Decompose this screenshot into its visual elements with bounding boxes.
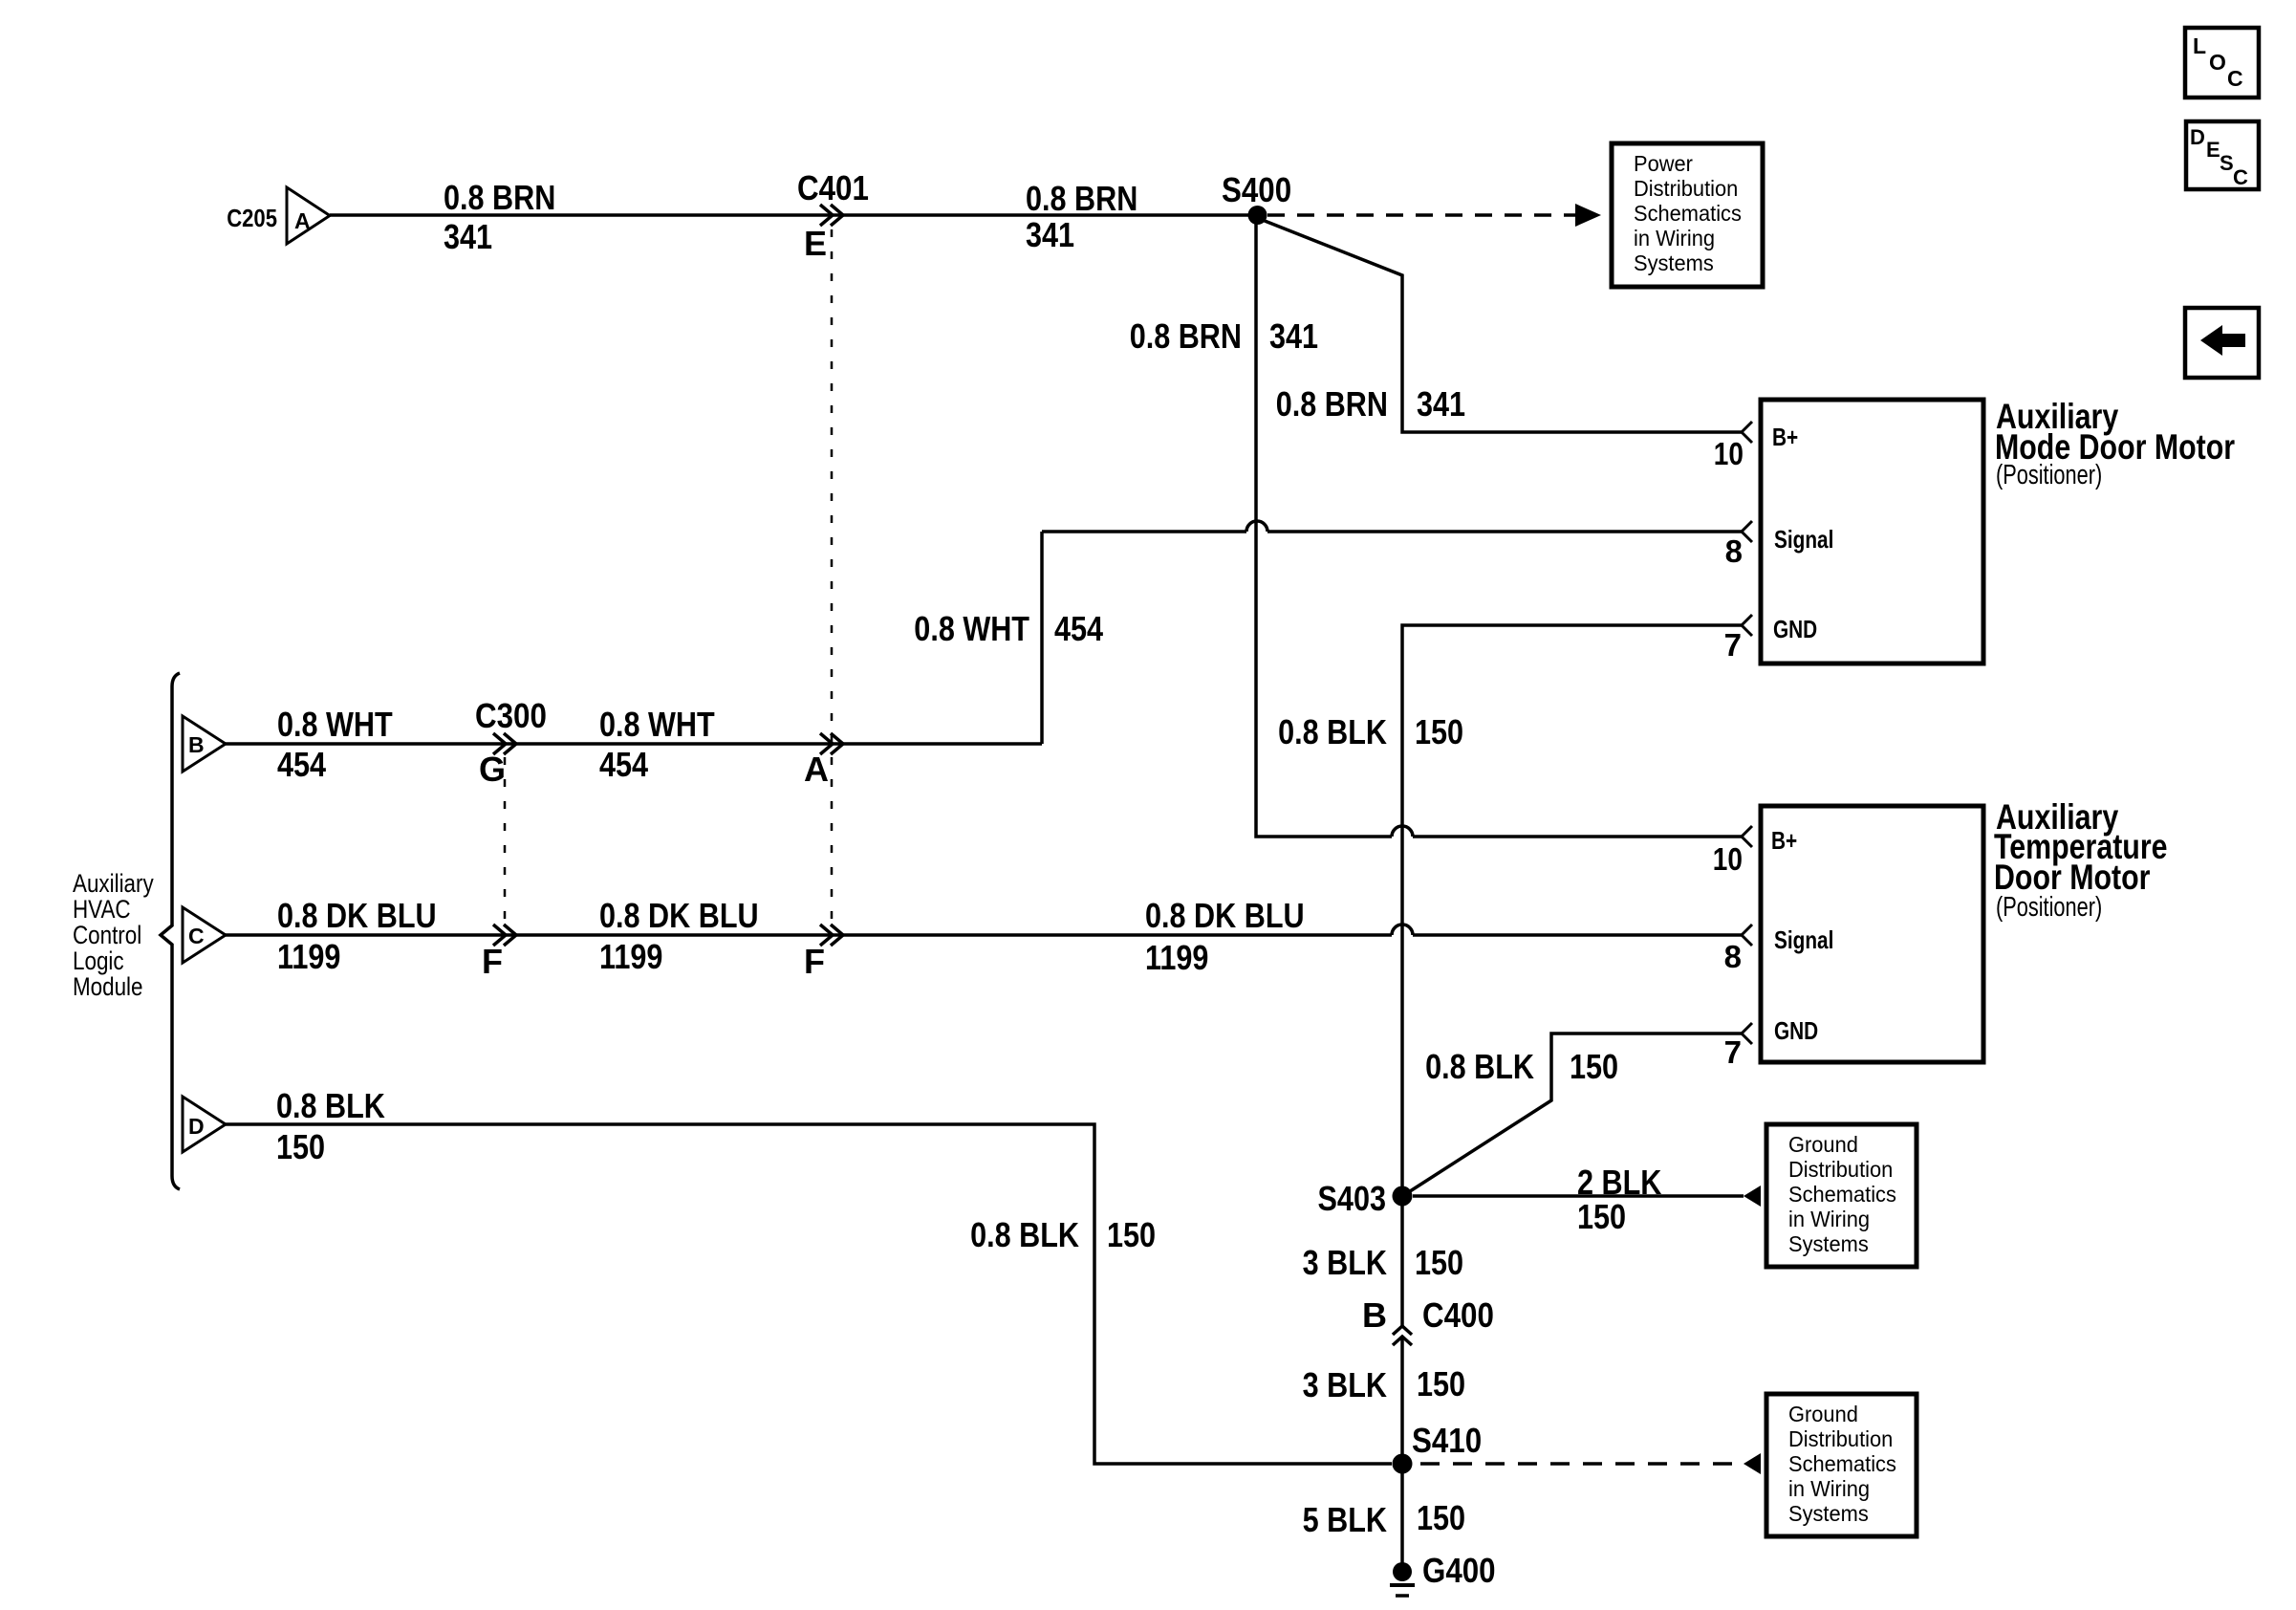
svg-text:5 BLK: 5 BLK bbox=[1303, 1500, 1387, 1539]
wire temp GND bbox=[1407, 1033, 1742, 1193]
svg-text:Schematics: Schematics bbox=[1634, 201, 1742, 226]
svg-text:E: E bbox=[2206, 138, 2220, 162]
svg-text:B+: B+ bbox=[1771, 826, 1797, 855]
svg-text:150: 150 bbox=[1415, 1243, 1463, 1282]
arrow S410 to ground box bbox=[1744, 1453, 1761, 1474]
svg-text:7: 7 bbox=[1724, 627, 1742, 663]
wire mode signal bbox=[1267, 530, 1742, 533]
svg-text:C300: C300 bbox=[475, 696, 547, 735]
svg-text:C401: C401 bbox=[797, 168, 869, 207]
wire 0.8 BRN C205 to S400 bbox=[330, 213, 1258, 217]
module pin triangle D bbox=[183, 1097, 226, 1152]
svg-text:0.8 BRN: 0.8 BRN bbox=[1276, 384, 1388, 424]
svg-text:F: F bbox=[804, 942, 825, 981]
arrow S403 to ground box bbox=[1744, 1186, 1761, 1207]
wire 0.8 DK BLU row C bbox=[224, 933, 1392, 937]
svg-text:Module: Module bbox=[73, 972, 143, 1001]
svg-text:2 BLK: 2 BLK bbox=[1577, 1163, 1661, 1202]
ground G400 bbox=[1393, 1562, 1412, 1581]
svg-text:E: E bbox=[804, 224, 827, 263]
temp door motor box bbox=[1761, 806, 1983, 1062]
power distribution box bbox=[1612, 143, 1763, 287]
svg-text:0.8 BRN: 0.8 BRN bbox=[1130, 316, 1242, 356]
pin socket temp signal bbox=[1742, 925, 1752, 946]
pin socket temp B+ bbox=[1742, 826, 1752, 847]
svg-text:S410: S410 bbox=[1412, 1421, 1482, 1460]
svg-text:A: A bbox=[804, 750, 829, 789]
svg-text:1199: 1199 bbox=[599, 937, 662, 976]
wire S400 vertical to temp B+ bbox=[1256, 222, 1392, 837]
svg-text:Logic: Logic bbox=[73, 946, 124, 975]
module bracket bbox=[161, 673, 180, 1189]
svg-text:in Wiring: in Wiring bbox=[1788, 1207, 1870, 1231]
back arrow box bbox=[2185, 308, 2259, 378]
svg-text:8: 8 bbox=[1725, 533, 1743, 569]
svg-text:Control: Control bbox=[73, 921, 141, 949]
svg-text:3 BLK: 3 BLK bbox=[1303, 1243, 1387, 1282]
svg-text:150: 150 bbox=[1417, 1364, 1465, 1403]
mode door motor box bbox=[1761, 400, 1983, 664]
svg-text:(Positioner): (Positioner) bbox=[1996, 460, 2102, 490]
wire mode GND bbox=[1402, 625, 1742, 1196]
svg-text:S400: S400 bbox=[1222, 170, 1291, 209]
svg-text:Distribution: Distribution bbox=[1788, 1426, 1893, 1451]
splice S410 bbox=[1393, 1454, 1413, 1474]
svg-text:G400: G400 bbox=[1422, 1551, 1496, 1590]
svg-text:0.8 WHT: 0.8 WHT bbox=[277, 705, 393, 744]
svg-text:0.8 WHT: 0.8 WHT bbox=[914, 609, 1029, 648]
svg-text:A: A bbox=[294, 208, 311, 233]
svg-text:1199: 1199 bbox=[277, 937, 340, 976]
svg-text:Auxiliary: Auxiliary bbox=[73, 869, 154, 898]
pin socket temp GND bbox=[1742, 1023, 1752, 1044]
connector C300 dashed line bbox=[504, 757, 507, 922]
svg-text:Systems: Systems bbox=[1788, 1501, 1869, 1526]
svg-text:0.8 DK BLU: 0.8 DK BLU bbox=[1145, 896, 1305, 935]
splice S403 bbox=[1393, 1186, 1413, 1207]
wire 0.8 WHT row B bbox=[224, 742, 1042, 746]
svg-text:in Wiring: in Wiring bbox=[1788, 1476, 1870, 1501]
wire 0.8 BLK row D bbox=[226, 1124, 1392, 1464]
wire C400 to S410 bbox=[1400, 1338, 1404, 1464]
svg-text:C400: C400 bbox=[1422, 1295, 1494, 1335]
svg-text:Door Motor: Door Motor bbox=[1994, 858, 2151, 897]
svg-text:Signal: Signal bbox=[1774, 925, 1833, 954]
svg-text:10: 10 bbox=[1713, 841, 1743, 877]
wire mode signal vertical to WHT row bbox=[1040, 532, 1044, 744]
svg-text:L: L bbox=[2193, 33, 2206, 58]
pin socket mode GND bbox=[1742, 615, 1752, 636]
svg-text:341: 341 bbox=[444, 217, 492, 256]
svg-text:(Positioner): (Positioner) bbox=[1996, 892, 2102, 923]
svg-text:C: C bbox=[2233, 165, 2248, 189]
svg-text:D: D bbox=[188, 1114, 205, 1139]
svg-text:B: B bbox=[1362, 1295, 1387, 1335]
svg-text:GND: GND bbox=[1774, 1016, 1818, 1045]
svg-text:0.8 WHT: 0.8 WHT bbox=[599, 705, 715, 744]
wire S410 to G400 bbox=[1400, 1473, 1404, 1564]
svg-text:8: 8 bbox=[1724, 939, 1742, 974]
wire S403 to ground arrow bbox=[1413, 1194, 1744, 1198]
ground distribution box 2 bbox=[1766, 1394, 1917, 1536]
svg-text:0.8 BLK: 0.8 BLK bbox=[1278, 712, 1387, 751]
svg-text:G: G bbox=[479, 750, 506, 789]
svg-text:7: 7 bbox=[1724, 1034, 1742, 1070]
svg-text:D: D bbox=[2190, 125, 2205, 149]
svg-text:341: 341 bbox=[1417, 384, 1465, 424]
connector C401 dashed line bbox=[831, 229, 834, 924]
pin socket mode signal bbox=[1742, 521, 1752, 542]
pin socket mode B+ bbox=[1742, 422, 1752, 443]
svg-text:150: 150 bbox=[1570, 1047, 1618, 1086]
svg-text:0.8 BRN: 0.8 BRN bbox=[444, 178, 555, 217]
svg-text:Systems: Systems bbox=[1634, 250, 1714, 275]
svg-text:0.8 DK BLU: 0.8 DK BLU bbox=[277, 896, 437, 935]
svg-text:Signal: Signal bbox=[1774, 525, 1833, 554]
svg-text:Distribution: Distribution bbox=[1634, 176, 1738, 201]
svg-text:3 BLK: 3 BLK bbox=[1303, 1365, 1387, 1404]
connector C300 pin G chevrons bbox=[493, 733, 506, 754]
svg-text:in Wiring: in Wiring bbox=[1634, 226, 1715, 250]
splice S400 bbox=[1248, 206, 1267, 225]
svg-text:Schematics: Schematics bbox=[1788, 1182, 1896, 1207]
svg-text:F: F bbox=[482, 942, 503, 981]
LOC box bbox=[2185, 28, 2259, 98]
wire S403 down to C400 bbox=[1400, 1206, 1404, 1326]
arrow to power box bbox=[1575, 204, 1601, 227]
svg-text:10: 10 bbox=[1714, 436, 1744, 471]
svg-text:S: S bbox=[2220, 151, 2234, 175]
svg-text:HVAC: HVAC bbox=[73, 895, 131, 924]
svg-text:0.8 BRN: 0.8 BRN bbox=[1026, 179, 1137, 218]
connector C300 pin F chevrons bbox=[493, 925, 506, 946]
module pin triangle C bbox=[183, 907, 226, 963]
svg-text:B: B bbox=[188, 732, 205, 757]
connector C401 pin A chevrons bbox=[820, 733, 833, 754]
hop temp B+ over BLK vertical bbox=[1392, 826, 1413, 837]
svg-text:150: 150 bbox=[1417, 1498, 1465, 1537]
ground distribution box 1 bbox=[1766, 1124, 1917, 1267]
connector C205 triangle A bbox=[287, 187, 330, 244]
connector C401 pin E chevrons bbox=[820, 205, 833, 226]
svg-text:1199: 1199 bbox=[1145, 938, 1208, 977]
svg-text:GND: GND bbox=[1773, 615, 1817, 643]
svg-text:454: 454 bbox=[1054, 609, 1103, 648]
wire S400 dashed to power box arrow bbox=[1267, 213, 1577, 217]
svg-text:341: 341 bbox=[1269, 316, 1318, 356]
hop DK BLU over BLK vertical bbox=[1392, 925, 1413, 935]
wire S410 dashed to ground arrow bbox=[1420, 1462, 1744, 1466]
svg-text:341: 341 bbox=[1026, 215, 1074, 254]
svg-text:0.8 BLK: 0.8 BLK bbox=[276, 1086, 385, 1125]
svg-text:Schematics: Schematics bbox=[1788, 1451, 1896, 1476]
svg-text:Systems: Systems bbox=[1788, 1231, 1869, 1256]
hop signal over S400 vertical bbox=[1246, 521, 1267, 532]
svg-text:150: 150 bbox=[1577, 1197, 1626, 1236]
svg-text:0.8 BLK: 0.8 BLK bbox=[970, 1215, 1079, 1254]
svg-text:B+: B+ bbox=[1772, 423, 1798, 451]
svg-text:Distribution: Distribution bbox=[1788, 1157, 1893, 1182]
DESC box bbox=[2186, 121, 2259, 189]
svg-text:150: 150 bbox=[1107, 1215, 1156, 1254]
svg-text:0.8 DK BLU: 0.8 DK BLU bbox=[599, 896, 759, 935]
svg-text:Ground: Ground bbox=[1788, 1402, 1858, 1426]
svg-text:C205: C205 bbox=[227, 204, 277, 232]
svg-text:Power: Power bbox=[1634, 151, 1693, 176]
svg-text:C: C bbox=[188, 924, 205, 948]
svg-text:150: 150 bbox=[1415, 712, 1463, 751]
svg-text:C: C bbox=[2227, 66, 2243, 91]
connector C400 pin B chevrons up bbox=[1393, 1326, 1412, 1335]
svg-text:Ground: Ground bbox=[1788, 1132, 1858, 1157]
svg-text:454: 454 bbox=[277, 745, 326, 784]
module pin triangle B bbox=[183, 716, 226, 772]
connector C401 pin F chevrons bbox=[820, 925, 833, 946]
wire S400 diagonal to mode B+ bbox=[1260, 219, 1742, 432]
svg-text:O: O bbox=[2209, 50, 2226, 75]
svg-text:S403: S403 bbox=[1318, 1179, 1387, 1218]
svg-text:0.8 BLK: 0.8 BLK bbox=[1425, 1047, 1534, 1086]
svg-text:454: 454 bbox=[599, 745, 648, 784]
svg-text:150: 150 bbox=[276, 1127, 325, 1166]
